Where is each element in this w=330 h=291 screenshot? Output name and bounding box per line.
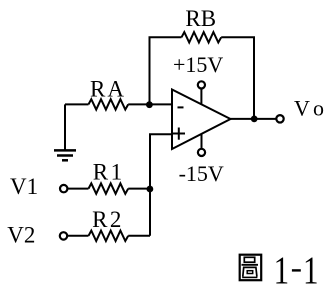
svg-text:V1: V1 (10, 174, 38, 199)
svg-text:V2: V2 (7, 223, 35, 248)
svg-text:1: 1 (274, 249, 290, 291)
svg-text:1: 1 (303, 249, 319, 291)
svg-text:-15V: -15V (179, 161, 224, 186)
svg-text:R2: R2 (92, 207, 124, 232)
svg-text:R1: R1 (93, 159, 125, 184)
svg-text:+15V: +15V (173, 52, 223, 77)
svg-text:RB: RB (185, 6, 216, 31)
svg-text:Vo: Vo (294, 96, 330, 121)
svg-text:RA: RA (90, 77, 126, 102)
